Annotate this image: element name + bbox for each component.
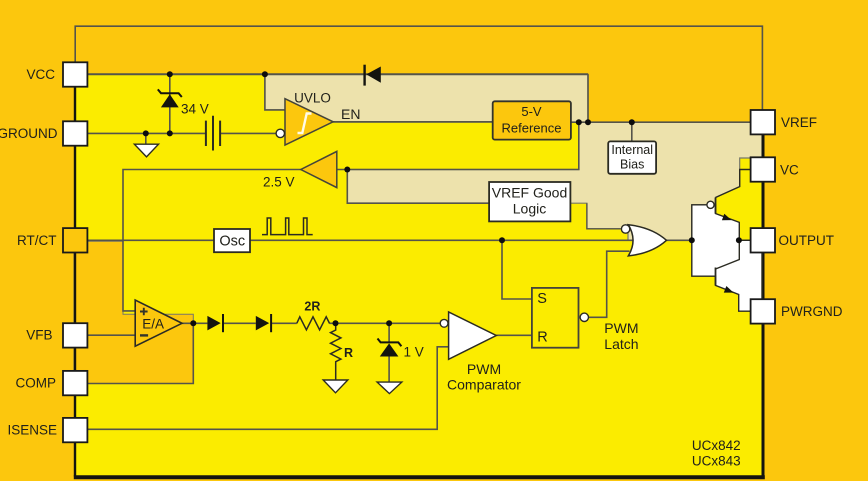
svg-text:UVLO: UVLO [294,91,331,106]
svg-text:GROUND: GROUND [0,126,58,141]
svg-text:S: S [537,291,547,307]
svg-text:2.5 V: 2.5 V [263,175,295,190]
svg-text:Bias: Bias [620,157,644,171]
svg-text:Latch: Latch [604,336,638,352]
svg-text:PWM: PWM [467,361,501,377]
svg-text:Osc: Osc [219,233,245,249]
svg-text:PWRGND: PWRGND [781,304,843,319]
svg-text:VC: VC [780,162,799,177]
svg-text:1 V: 1 V [404,345,424,360]
svg-text:UCx842: UCx842 [692,438,741,453]
svg-text:VREF: VREF [781,115,817,130]
svg-text:R: R [344,346,353,360]
svg-text:EN: EN [341,106,360,122]
svg-text:VREF Good: VREF Good [492,185,567,201]
svg-text:PWM: PWM [604,320,638,336]
svg-text:2R: 2R [304,299,320,313]
svg-text:VCC: VCC [26,67,55,82]
svg-text:R: R [537,330,547,346]
svg-text:5-V: 5-V [521,104,542,119]
svg-text:Logic: Logic [513,201,546,217]
svg-text:OUTPUT: OUTPUT [779,233,835,248]
svg-text:Reference: Reference [502,120,562,135]
svg-text:E/A: E/A [142,316,164,331]
svg-text:ISENSE: ISENSE [7,423,57,438]
svg-text:RT/CT: RT/CT [17,233,57,248]
svg-text:COMP: COMP [16,376,57,391]
svg-text:VFB: VFB [26,328,52,343]
svg-text:Comparator: Comparator [447,376,521,392]
svg-text:Internal: Internal [611,143,653,157]
svg-text:34 V: 34 V [181,102,209,117]
svg-text:UCx843: UCx843 [692,454,741,469]
